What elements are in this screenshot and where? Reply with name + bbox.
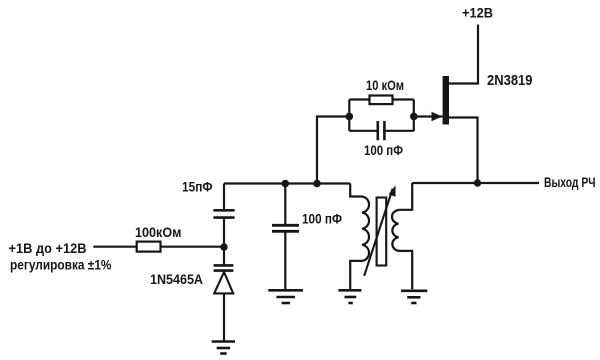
junction varactor node [220,243,227,250]
transformer core [377,198,387,266]
wire gate riser from tank node [317,117,349,184]
svg-text:100кОм: 100кОм [135,224,182,240]
wire primary top stub [350,184,362,197]
ground shunt cap [268,290,303,303]
svg-text:+1В до +12В: +1В до +12В [9,241,87,256]
resistor R1 10 кОм [370,96,393,105]
wire drain to +12V [449,25,478,84]
wire secondary top stub [399,183,413,210]
capacitor C1 15пФ [213,184,234,245]
gate arrow of Q1 [432,112,443,121]
svg-text:100 пФ: 100 пФ [302,211,342,227]
junction RC left node [346,113,354,121]
svg-text:Выход РЧ: Выход РЧ [544,175,596,190]
ground varactor [212,342,235,354]
capacitor C3 100 пФ shunt [272,184,299,290]
svg-text:100 пФ: 100 пФ [364,142,403,158]
svg-text:+12В: +12В [462,5,493,21]
capacitor C2 100 пФ feedback plates [378,121,385,140]
ground secondary [401,291,427,303]
transformer tuning arrow [364,185,395,276]
ground primary [338,290,361,303]
wire RC loop top branch [349,98,414,100]
junction riser node [313,180,321,188]
svg-text:регулировка ±1%: регулировка ±1% [10,258,112,273]
junction RC right node [410,113,418,121]
wire RF output line [412,182,539,184]
wire primary bottom stub [350,261,362,289]
junction output node [474,179,481,186]
wire RC loop bottom branch [349,130,414,132]
svg-text:1N5465A: 1N5465A [150,271,203,287]
inductor L2 secondary winding [392,210,399,251]
svg-text:15пФ: 15пФ [182,178,213,194]
wire secondary bottom stub [399,251,413,289]
svg-text:2N3819: 2N3819 [487,72,533,89]
wire RC loop left vertical [348,100,350,131]
transistor Q1 2N3819 channel bar [443,76,449,125]
svg-text:10 кОм: 10 кОм [366,77,404,93]
wire RC loop right vertical [413,100,415,131]
varactor diode D1 1N5465A [214,247,234,341]
junction shunt cap node [282,180,290,188]
inductor L1 primary winding [362,197,369,261]
wire source to output node [449,118,478,184]
resistor R2 100 кОм [93,242,224,252]
wire main tank node line [224,182,350,184]
wire gate lead [414,115,443,117]
